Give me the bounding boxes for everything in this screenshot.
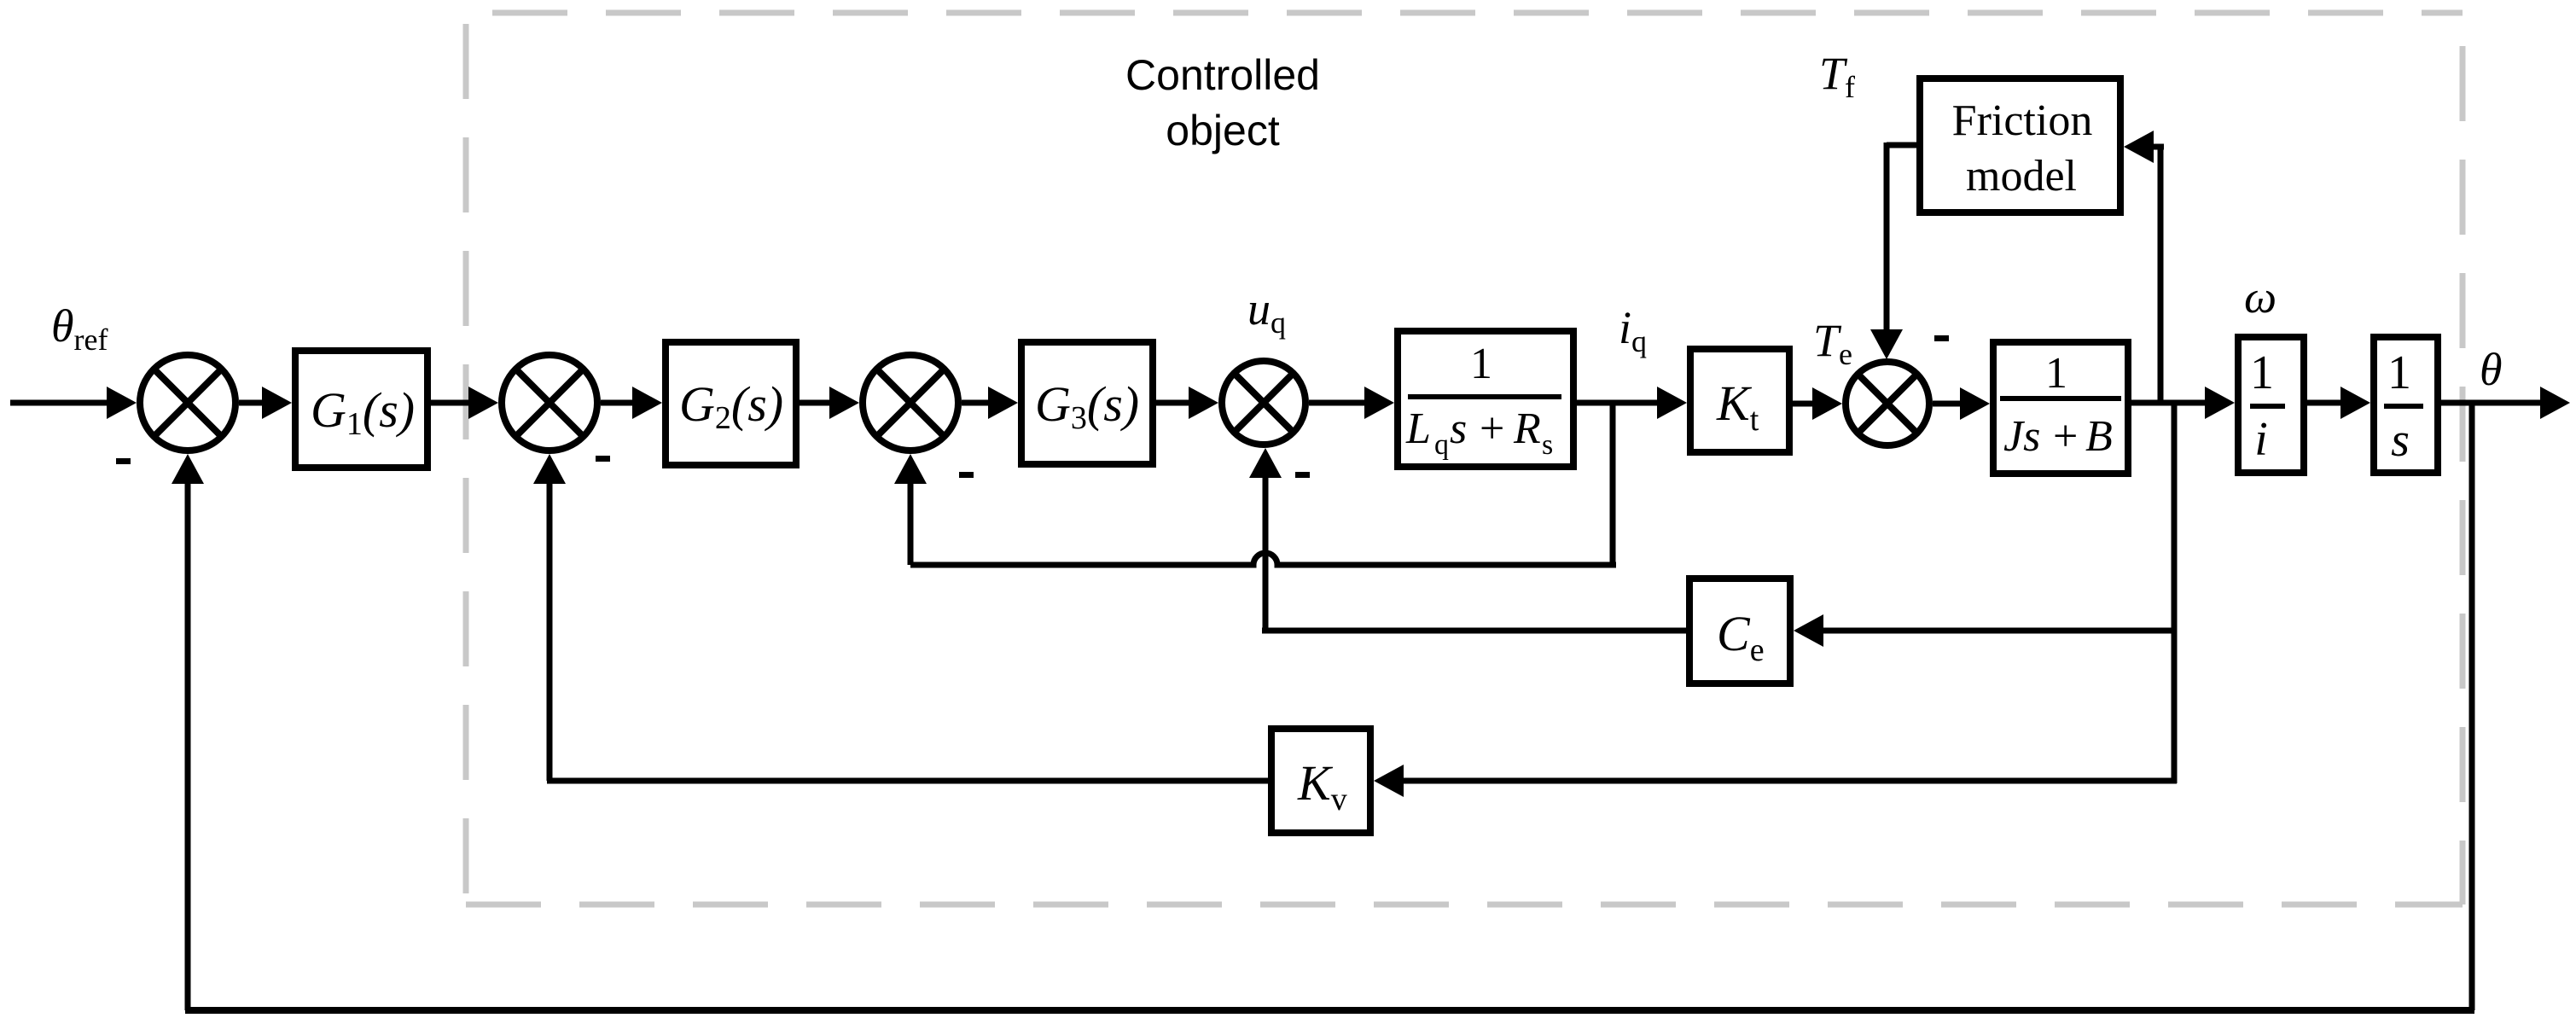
wire Kt to S5 xyxy=(1793,401,1815,407)
block G3(s) xyxy=(1021,342,1153,464)
summing junction S3 xyxy=(863,355,958,451)
svg-text:s: s xyxy=(1542,429,1553,461)
wire Ce output to S4 xyxy=(1262,628,1686,634)
minus sign at S5 xyxy=(1934,335,1949,341)
block G1(s) xyxy=(295,351,427,468)
svg-text:object: object xyxy=(1166,107,1280,154)
wire S2 to G2 xyxy=(601,400,635,406)
svg-text:Controlled: Controlled xyxy=(1125,51,1320,99)
wire S1 to G1 xyxy=(239,400,265,406)
minus sign at S3 xyxy=(959,472,974,478)
svg-text:1: 1 xyxy=(1470,340,1492,388)
block 1/(Js+B) xyxy=(1993,342,2128,474)
block G2(s) xyxy=(666,342,796,465)
wire Kv output to S2 xyxy=(547,778,1268,784)
svg-text:+: + xyxy=(2053,412,2078,461)
svg-text:i: i xyxy=(2254,413,2268,466)
wire G3 to S4 xyxy=(1156,400,1191,406)
block Kt xyxy=(1690,349,1789,452)
block Friction model xyxy=(1920,79,2120,212)
wire S3 to G3 xyxy=(962,400,993,406)
svg-text:s: s xyxy=(2391,414,2410,467)
minus sign at S1 xyxy=(116,458,131,464)
wire input to S1 xyxy=(10,400,109,406)
wire output xyxy=(2441,400,2543,406)
wire mechanical block to 1/i xyxy=(2128,400,2207,406)
wire G1 to S2 xyxy=(431,400,471,406)
wire outer position feedback to S1 xyxy=(2469,403,2475,1010)
wire 1/i to 1/s xyxy=(2307,400,2343,406)
svg-text:Friction: Friction xyxy=(1952,96,2093,145)
svg-text:1: 1 xyxy=(2045,349,2067,398)
wire S5 to mechanical block xyxy=(1933,401,1963,407)
svg-text:θ: θ xyxy=(2480,344,2503,395)
summing junction S4 xyxy=(1222,361,1305,445)
svg-text:G1(s): G1(s) xyxy=(311,382,415,442)
wire to Kv input xyxy=(1404,778,2177,784)
svg-text:Js: Js xyxy=(2003,412,2040,461)
block 1/(Lq s + Rs) xyxy=(1398,331,1573,467)
summing junction S2 xyxy=(502,355,597,451)
svg-text:G3(s): G3(s) xyxy=(1035,376,1139,436)
minus sign at S4 xyxy=(1295,472,1310,478)
wire to Ce input xyxy=(1821,628,2177,634)
svg-text:L: L xyxy=(1405,404,1431,453)
svg-text:1: 1 xyxy=(2387,346,2411,399)
minus sign at S2 xyxy=(596,456,610,462)
svg-text:q: q xyxy=(1434,429,1449,461)
wire speed tap down xyxy=(2172,403,2178,783)
block 1/i xyxy=(2238,337,2304,473)
svg-text:G2(s): G2(s) xyxy=(679,376,783,436)
wire i_q current feedback to S3 xyxy=(1610,403,1616,565)
svg-text:1: 1 xyxy=(2250,346,2274,399)
svg-text:model: model xyxy=(1966,152,2077,201)
svg-text:+: + xyxy=(1480,404,1504,453)
svg-text:B: B xyxy=(2085,412,2113,461)
svg-text:R: R xyxy=(1513,404,1541,453)
wire G2 to S3 xyxy=(800,400,832,406)
wire speed tap up to friction model xyxy=(2158,144,2164,403)
wire friction model output to S5 xyxy=(1887,143,1916,148)
wire S4 to electrical block xyxy=(1309,400,1367,406)
svg-text:s: s xyxy=(1450,404,1467,453)
dashed boundary of controlled object xyxy=(466,13,2463,905)
summing junction S1 xyxy=(140,355,236,451)
block Ce xyxy=(1689,579,1790,684)
svg-text:ω: ω xyxy=(2244,271,2277,323)
summing junction S5 xyxy=(1846,362,1929,445)
block 1/s xyxy=(2374,337,2438,473)
wire electrical block to Kt xyxy=(1577,400,1660,406)
block Kv xyxy=(1271,729,1370,833)
